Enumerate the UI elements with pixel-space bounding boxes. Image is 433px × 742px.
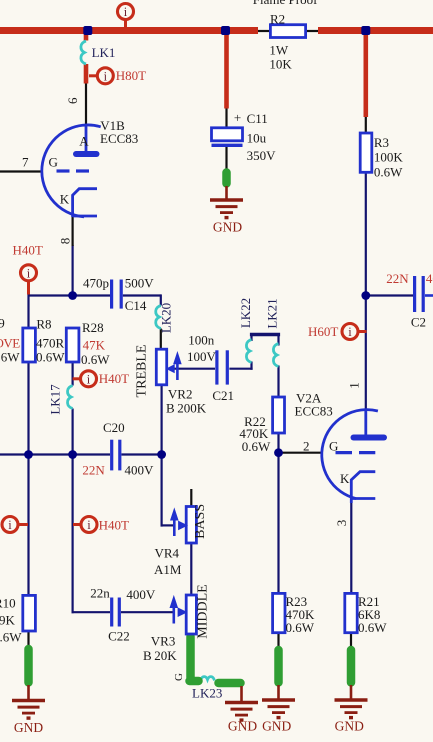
svg-text:LK23: LK23 [192, 686, 222, 701]
svg-text:470R: 470R [36, 336, 65, 351]
svg-text:C14: C14 [125, 298, 147, 313]
svg-text:C2: C2 [411, 315, 426, 330]
svg-text:GND: GND [213, 220, 242, 235]
svg-text:0.6W: 0.6W [358, 620, 387, 635]
svg-text:C21: C21 [212, 388, 234, 403]
svg-text:2: 2 [303, 439, 310, 454]
svg-text:0.6W: 0.6W [286, 620, 315, 635]
svg-text:K: K [340, 471, 350, 486]
svg-text:VR4: VR4 [155, 546, 180, 561]
svg-text:LK17: LK17 [48, 384, 63, 415]
svg-text:0.6W: 0.6W [0, 630, 22, 645]
svg-text:A: A [79, 134, 89, 149]
svg-text:6: 6 [65, 97, 80, 104]
svg-text:MIDDLE: MIDDLE [195, 584, 210, 638]
svg-text:C20: C20 [103, 420, 125, 435]
svg-text:350V: 350V [247, 148, 277, 163]
svg-text:1W: 1W [269, 43, 289, 58]
svg-text:47K: 47K [83, 338, 106, 353]
svg-text:GND: GND [335, 719, 364, 734]
svg-text:0.6W: 0.6W [81, 352, 110, 367]
svg-text:VR2: VR2 [168, 387, 193, 402]
svg-text:400V: 400V [126, 587, 155, 602]
svg-text:LK20: LK20 [159, 303, 174, 333]
svg-text:ECC83: ECC83 [295, 404, 333, 419]
svg-text:R28: R28 [82, 320, 104, 335]
svg-text:A1M: A1M [154, 562, 182, 577]
svg-text:500V: 500V [125, 276, 155, 291]
svg-text:100n: 100n [188, 333, 215, 348]
svg-text:B 200K: B 200K [166, 401, 207, 416]
svg-text:400V: 400V [125, 463, 155, 478]
svg-text:H40T: H40T [99, 371, 129, 386]
svg-text:22N: 22N [82, 463, 105, 478]
svg-text:+: + [234, 110, 241, 125]
svg-text:OVE: OVE [0, 336, 20, 351]
svg-text:LK21: LK21 [265, 298, 280, 328]
svg-text:39K: 39K [0, 613, 16, 628]
svg-text:C11: C11 [247, 111, 268, 126]
svg-text:7: 7 [22, 155, 29, 170]
svg-text:GND: GND [228, 719, 257, 734]
svg-text:470p: 470p [83, 276, 109, 291]
svg-text:.6W: .6W [0, 350, 20, 365]
svg-text:Flame Proof: Flame Proof [253, 0, 318, 7]
svg-text:H40T: H40T [99, 518, 129, 533]
svg-text:H40T: H40T [13, 243, 43, 258]
svg-text:400V: 400V [426, 271, 433, 286]
svg-text:22N: 22N [386, 271, 409, 286]
svg-text:R3: R3 [374, 135, 389, 150]
svg-text:LK1: LK1 [92, 45, 116, 60]
svg-text:VR3: VR3 [151, 634, 176, 649]
svg-text:BASS: BASS [193, 504, 208, 539]
svg-text:100K: 100K [374, 150, 404, 165]
svg-text:ECC83: ECC83 [100, 131, 138, 146]
svg-text:TREBLE: TREBLE [135, 345, 150, 398]
svg-text:GND: GND [14, 720, 43, 735]
svg-text:B 20K: B 20K [143, 648, 177, 663]
svg-text:R8: R8 [36, 317, 51, 332]
svg-text:H80T: H80T [116, 68, 146, 83]
svg-text:H60T: H60T [308, 324, 338, 339]
svg-text:10u: 10u [247, 131, 267, 146]
svg-text:0.6W: 0.6W [374, 165, 403, 180]
svg-text:0.6W: 0.6W [36, 350, 65, 365]
svg-text:3: 3 [334, 520, 349, 527]
svg-text:1: 1 [347, 382, 362, 389]
svg-text:0.6W: 0.6W [242, 439, 271, 454]
svg-text:100V: 100V [187, 349, 217, 364]
svg-text:8: 8 [58, 238, 73, 245]
svg-text:GND: GND [262, 719, 291, 734]
svg-text:.9: .9 [0, 316, 5, 331]
svg-text:10K: 10K [269, 57, 292, 72]
svg-text:R10: R10 [0, 596, 16, 611]
svg-text:LK22: LK22 [238, 298, 253, 328]
svg-text:C22: C22 [108, 629, 130, 644]
svg-text:K: K [60, 191, 70, 206]
svg-text:R2: R2 [270, 12, 285, 27]
svg-text:G: G [49, 155, 58, 170]
svg-text:G: G [329, 439, 338, 454]
svg-text:22n: 22n [90, 586, 110, 601]
svg-text:G: G [173, 673, 185, 681]
